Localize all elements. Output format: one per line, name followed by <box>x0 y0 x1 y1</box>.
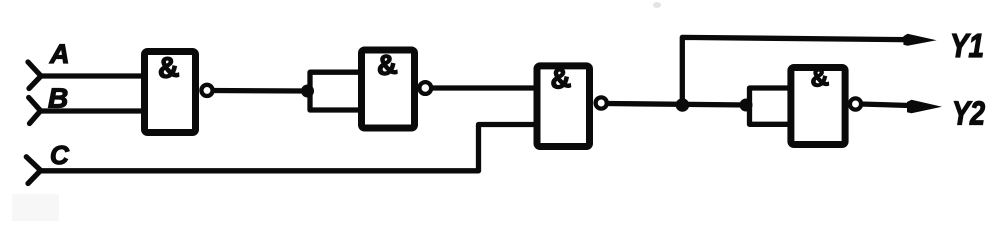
svg-text:C: C <box>50 140 70 170</box>
svg-text:Y1: Y1 <box>950 27 984 64</box>
svg-text:&: & <box>156 51 180 85</box>
svg-text:&: & <box>549 62 572 95</box>
svg-text:B: B <box>48 83 68 114</box>
svg-text:&: & <box>809 63 830 93</box>
svg-text:Y2: Y2 <box>952 95 986 132</box>
svg-text:A: A <box>49 39 70 69</box>
svg-text:&: & <box>375 48 398 81</box>
